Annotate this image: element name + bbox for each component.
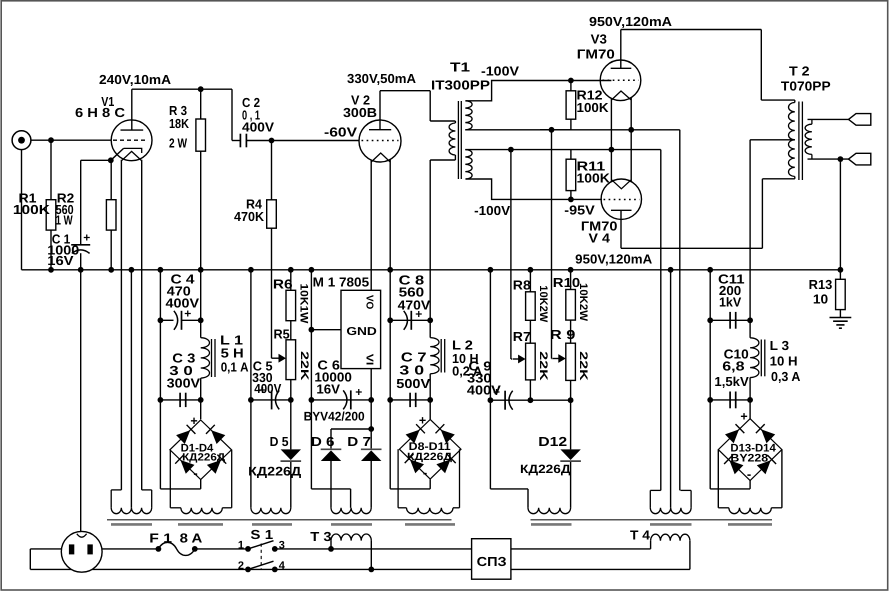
resistor R3 18K 2W (196, 119, 206, 151)
wire: C1 branch / earth line (80, 160, 82, 244)
capacitor C5 330 400V (275, 390, 279, 409)
capacitor C1 1000uF 16V (71, 244, 90, 246)
winding: V1 heater (T3) (111, 489, 121, 491)
svg-text:+: + (419, 414, 426, 428)
svg-text:100K: 100K (577, 100, 610, 115)
svg-text:R 9: R 9 (550, 327, 576, 342)
wire: C10 link (710, 399, 750, 401)
svg-text:8 A: 8 A (180, 531, 203, 546)
diode D6 (321, 450, 341, 461)
wire: V2 cathode / C8 rail (389, 160, 391, 321)
svg-text:22K: 22K (577, 351, 589, 380)
wire: T2 centre tap rail (750, 139, 795, 141)
core line T3 (107, 519, 452, 521)
svg-text:2 W: 2 W (169, 136, 188, 151)
wire: input jack to V1 grid (31, 139, 111, 141)
svg-text:КД226Д: КД226Д (182, 452, 226, 464)
svg-text:0,2 A: 0,2 A (452, 364, 483, 379)
junction dots on ground bus (48, 267, 54, 273)
inductor L3 10H 0.3A (750, 338, 759, 378)
wire: V3/V4 filament line right (630, 98, 632, 182)
svg-text:16V: 16V (316, 382, 340, 397)
svg-text:330V,50mA: 330V,50mA (347, 71, 417, 86)
svg-text:10K2W: 10K2W (577, 283, 589, 322)
svg-text:СПЗ: СПЗ (477, 554, 507, 569)
wire: R10/R9/D12 rail (570, 270, 572, 290)
winding: D1-D4 anode supply (T3) (181, 508, 222, 514)
tube V4 GM70 (601, 179, 641, 219)
svg-text:1 W: 1 W (56, 213, 74, 228)
transformer T1 upper secondary winding (465, 101, 472, 130)
svg-text:-100V: -100V (474, 203, 510, 218)
wire: R13 branch from output (839, 159, 841, 279)
resistor R6 10K 1W (286, 290, 296, 320)
svg-text:VO: VO (363, 295, 374, 310)
svg-text:950V,120mA: 950V,120mA (575, 252, 653, 267)
svg-text:-: - (193, 466, 197, 481)
svg-text:400V: 400V (166, 296, 200, 311)
input jack (12, 131, 31, 150)
svg-text:-95V: -95V (564, 203, 595, 218)
wire: C8 link (390, 319, 430, 321)
winding: D8-D11 supply (T3) (407, 508, 454, 514)
resistor R5 22K trimmer (286, 340, 296, 380)
wire: mains left bend (29, 549, 31, 570)
switch S1 pole 1-3 (245, 546, 251, 552)
wire: C11 left rail (709, 270, 711, 321)
winding: D5 bias supply (T3) (251, 508, 291, 514)
svg-text:+: + (740, 410, 747, 424)
wire: T2 secondary to output terminals (808, 118, 849, 120)
wire: C6 left rail / 7805 ground (310, 270, 312, 400)
tube V1 6N8S (111, 120, 152, 161)
wire: T1 lower secondary top lead (y150) (465, 149, 661, 151)
bridge rectifier D13-D14 BY228 (718, 419, 782, 481)
wire: R8/R7 rail (529, 270, 531, 292)
svg-text:300V: 300V (167, 376, 201, 391)
svg-text:6 Н 8 С: 6 Н 8 С (75, 105, 126, 120)
wire: V1 heater centre tap (130, 270, 132, 508)
svg-text:240V,10mA: 240V,10mA (99, 72, 172, 87)
svg-text:400V: 400V (254, 381, 281, 396)
wire: -100V filament return (y130) (465, 129, 680, 131)
capacitor C9 330 400V (509, 391, 513, 410)
wire: R9 wiper feed (551, 130, 553, 359)
transformer T2 primary winding (794, 100, 796, 102)
svg-text:M 1 7805: M 1 7805 (313, 274, 369, 289)
svg-text:1,5kV: 1,5kV (714, 374, 749, 389)
svg-text:V3: V3 (591, 32, 607, 47)
svg-text:T070PP: T070PP (781, 79, 831, 94)
wire: D6/D7 cathode tie (331, 428, 371, 430)
wire: R7 wiper feed (510, 150, 512, 359)
svg-text:22K: 22K (537, 351, 549, 380)
wire: R12 branch (570, 81, 572, 91)
svg-text:100K: 100K (577, 171, 611, 186)
resistor R12 100K (566, 91, 576, 119)
regulator M1 7805 (341, 290, 381, 368)
wire: T1 top secondary to -100V / V3 grid (466, 81, 611, 101)
output terminal lower (849, 153, 871, 165)
svg-text:0,3 A: 0,3 A (771, 369, 801, 384)
capacitor C10 6.8 1.5kV (729, 392, 731, 409)
wire: C5 left rail (250, 270, 252, 508)
resistor R9 22K trimmer (566, 343, 576, 380)
wire: C9 link (490, 399, 570, 401)
transformer T2 T070PP core (798, 102, 800, 181)
svg-text:300B: 300B (343, 105, 377, 120)
resistor R11 100K (566, 159, 576, 190)
junction dots misc (48, 137, 54, 143)
svg-text:1kV: 1kV (719, 295, 742, 310)
svg-text:10K1W: 10K1W (297, 284, 309, 325)
svg-text:T 4: T 4 (630, 528, 651, 543)
wire: D7 anode to winding (370, 461, 372, 508)
svg-text:R10: R10 (553, 275, 580, 290)
bridge rectifier D1-D4 KD226D (170, 420, 232, 480)
svg-text:BY228: BY228 (730, 453, 768, 465)
svg-text:T 3: T 3 (310, 529, 331, 544)
wire: C6 link (311, 399, 371, 401)
svg-text:+: + (355, 385, 362, 399)
svg-text:10K2W: 10K2W (537, 285, 549, 323)
capacitor C6 10000 16V (343, 390, 347, 409)
wire: R2 branch (110, 160, 112, 199)
inductor L1 5H 0.1A (201, 338, 210, 378)
svg-text:6,8: 6,8 (722, 359, 744, 374)
svg-text:950V,120mA: 950V,120mA (589, 14, 673, 29)
svg-text:-100V: -100V (481, 64, 519, 79)
svg-text:3: 3 (279, 540, 285, 552)
svg-text:R6: R6 (273, 277, 293, 292)
wire: heater winding centre tap V3/V4 (670, 270, 672, 508)
wire: V4 anode to T2 primary bottom (620, 210, 622, 248)
wire: C4 link (160, 319, 173, 321)
wire: R1 branch (50, 140, 52, 200)
svg-text:D 6: D 6 (311, 434, 335, 449)
wire: bridge3 minus jog (749, 481, 751, 489)
resistor R10 10K 2W (566, 290, 576, 321)
svg-text:VI: VI (363, 354, 374, 366)
svg-text:22K: 22K (298, 351, 310, 380)
wire: mains top (30, 548, 61, 550)
wire: T1 primary bottom to C8/L2 rail (430, 159, 455, 161)
wire: C9 left rail (489, 270, 491, 400)
svg-text:ГМ70: ГМ70 (577, 47, 615, 62)
wire: bridge3 AC legs (717, 450, 719, 508)
core bars under windings (111, 523, 152, 526)
svg-text:10: 10 (813, 292, 828, 307)
resistor R2 560 1W (106, 200, 116, 230)
svg-text:2: 2 (238, 560, 244, 572)
wire: C11 link (710, 319, 750, 321)
winding: V3/V4 filament (T4) (650, 489, 661, 491)
wire: C2 to V2 grid (-60V node) (246, 140, 359, 142)
transformer T1 lower secondary winding (465, 150, 472, 179)
svg-text:S 1: S 1 (250, 527, 273, 542)
core line T4 (531, 519, 773, 521)
svg-text:КД226Д: КД226Д (520, 462, 571, 476)
svg-text:5 H: 5 H (221, 346, 244, 361)
winding: D12 bias supply (T4) (528, 508, 571, 514)
winding: D13-D14 supply (T4) (729, 508, 771, 514)
svg-text:400V: 400V (467, 383, 501, 398)
svg-text:470K: 470K (234, 209, 265, 224)
resistor R1 100K (46, 200, 56, 230)
switch S1 link (260, 544, 262, 570)
svg-text:R7: R7 (513, 329, 531, 344)
svg-text:R5: R5 (274, 327, 290, 342)
wire: D6 anode to winding (330, 461, 332, 508)
transformer T4 primary (650, 541, 652, 549)
svg-text:10 H: 10 H (770, 354, 798, 369)
mains plug (61, 531, 102, 572)
wire: V3/V4 filament line left (610, 99, 612, 181)
svg-text:T 2: T 2 (789, 64, 810, 79)
svg-text:100K: 100K (13, 202, 51, 217)
svg-text:R13: R13 (809, 277, 833, 292)
wire: V2 filament to 7805 in/out (370, 160, 372, 291)
transformer T3 primary (328, 546, 334, 552)
svg-text:D 7: D 7 (347, 434, 371, 449)
bridge rectifier D8-D11 KD226D (399, 419, 461, 479)
svg-text:GND: GND (346, 326, 377, 338)
svg-text:IT300PP: IT300PP (431, 78, 490, 93)
svg-text:500V: 500V (396, 376, 430, 391)
svg-text:-60V: -60V (324, 125, 357, 140)
resistor R8 10K 2W (526, 292, 536, 321)
resistor R7 22K trimmer (526, 343, 536, 380)
tube V3 GM70 (600, 60, 641, 101)
fuse F1 8A (158, 542, 194, 555)
winding: 7805 heater supply (T3) (331, 508, 371, 514)
wire: bridge1 minus jog (200, 480, 202, 489)
wire: filament feed to heater winding left (660, 150, 662, 491)
surge protector SP3 box (472, 539, 511, 580)
svg-text:+: + (83, 231, 90, 245)
capacitor C8 560 470V (404, 311, 408, 330)
wire: V1 cathode node (81, 159, 111, 161)
output terminal upper (849, 114, 871, 126)
diode D7 (361, 450, 381, 461)
svg-text:1: 1 (238, 540, 244, 552)
svg-text:+: + (190, 414, 197, 428)
svg-text:470V: 470V (398, 298, 431, 313)
svg-text:F 1: F 1 (149, 531, 172, 546)
switch S1 pole 2-4 (245, 567, 251, 573)
capacitor C4 470 400V (174, 311, 178, 330)
wire: C5 link (251, 399, 291, 401)
wire: ground bus (22, 269, 841, 271)
capacitor C3 30 300V (179, 393, 181, 407)
wire: C4/C3 left rail (159, 270, 161, 321)
svg-text:16V: 16V (47, 253, 74, 268)
transformer T2 secondary winding (811, 119, 813, 124)
svg-text:R8: R8 (513, 278, 531, 293)
svg-text:18K: 18K (169, 116, 190, 131)
wire: V2 anode to T1 primary (379, 91, 381, 130)
svg-text:4: 4 (279, 560, 286, 572)
svg-text:D 5: D 5 (270, 434, 289, 449)
resistor R4 470K (267, 200, 277, 228)
svg-text:D12: D12 (538, 434, 567, 449)
svg-text:-: - (423, 465, 427, 480)
inductor L2 10H 0.2A (430, 338, 439, 374)
svg-text:400V: 400V (242, 120, 274, 135)
wire: mains bottom (30, 568, 471, 570)
wire: L1 rail (200, 270, 202, 338)
svg-text:КД226Д: КД226Д (248, 465, 301, 479)
wire: R3 rail 240V (200, 89, 202, 119)
wire: V1 anode to R3/C2 node (131, 89, 133, 130)
wire: C7 link (390, 399, 430, 401)
wire: filament feed to heater winding right (679, 130, 681, 491)
tube V2 300B (359, 120, 401, 162)
svg-text:КД226Д: КД226Д (407, 451, 453, 463)
resistor R13 10 (836, 279, 846, 309)
wire: R4 rail to R5 wiper (271, 141, 273, 200)
wire: R6/R5/D5 rail (290, 270, 292, 291)
wire: T1 lower secondary to -95V / V4 grid (466, 179, 602, 199)
svg-text:0,1 А: 0,1 А (221, 360, 249, 375)
earth ground symbol (830, 317, 852, 319)
capacitor C11 200 1kV (729, 312, 731, 329)
capacitor C2 0.1 400V (239, 134, 241, 148)
transformer T1 primary winding (454, 121, 456, 123)
wire: V3 anode 950V to T2 (620, 30, 622, 69)
transformer T1 IT300PP core (457, 101, 459, 179)
diode D12 KD226D (560, 449, 580, 460)
svg-text:-: - (747, 467, 751, 482)
capacitor C7 30 500V (409, 393, 411, 407)
svg-text:T1: T1 (450, 60, 470, 75)
svg-text:BYV42/200: BYV42/200 (304, 410, 365, 424)
diode D5 KD226D (281, 449, 301, 460)
svg-text:L 3: L 3 (770, 338, 790, 353)
svg-text:V 4: V 4 (589, 231, 611, 246)
wire: C3 link (160, 399, 200, 401)
wire: R11 branch (570, 150, 572, 160)
wire: V1 heater pins (120, 160, 122, 490)
wire: bridge2 minus jog (429, 479, 431, 489)
